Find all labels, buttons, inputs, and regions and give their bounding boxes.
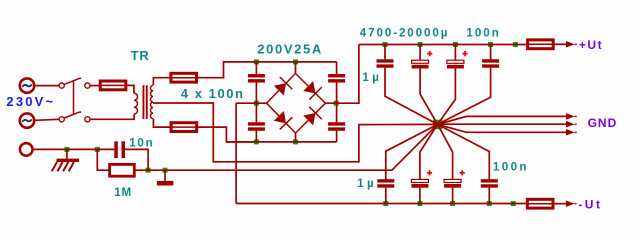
fuse F5 (-Ut)	[527, 199, 553, 208]
svg-text:1M: 1M	[114, 186, 132, 199]
wire transformer center tap to star ground	[153, 103, 438, 162]
junction bridge top rail left	[254, 59, 259, 64]
svg-text:100n: 100n	[466, 27, 500, 40]
wire bridge bottom vertex to rail	[295, 133, 297, 142]
wire 1M to junction	[134, 169, 148, 171]
earth terminal X3	[20, 143, 33, 156]
wire GND 2	[438, 123, 566, 125]
wire signal ground line to star	[165, 124, 438, 170]
capacitor C12 100n (bottom)	[438, 124, 490, 179]
capacitor C10 electrolytic (bottom)	[420, 124, 438, 179]
AC terminal X2 (230V bottom)	[20, 113, 34, 127]
capacitor C6 electrolytic 4700-20000u	[419, 45, 421, 61]
svg-text:+Ut: +Ut	[579, 38, 603, 52]
junction bottom rail C10	[417, 201, 422, 206]
junction signal ground	[163, 168, 168, 173]
resistor R1 1M	[110, 164, 135, 176]
capacitor C2 100n (bridge bottom-left)	[255, 103, 257, 122]
junction bridge right vertex	[334, 101, 339, 106]
junction bridge top rail mid	[293, 59, 298, 64]
switch gang link	[73, 81, 75, 115]
junction earth symbol	[64, 147, 69, 152]
bridge diode D2 (top-right)	[303, 81, 315, 93]
switch S1 pole B	[59, 117, 64, 122]
bottom filter rail -	[236, 203, 526, 205]
svg-text:230V~: 230V~	[6, 94, 55, 109]
fuse F1 (primary)	[100, 81, 126, 90]
wire F3 to bridge bottom rail	[198, 127, 257, 142]
junction bridge bottom rail mid	[293, 139, 298, 144]
capacitor C1 100n top-left lead	[255, 62, 257, 74]
bridge bottom rail	[226, 141, 336, 143]
switch S1 pole A	[59, 83, 64, 88]
arrow -Ut	[566, 200, 575, 207]
wire bottom switch to transformer primary	[90, 114, 134, 119]
wire secondary top to fuse F2	[153, 78, 169, 86]
wire to signal ground	[148, 169, 165, 171]
junction bridge bottom rail left	[254, 139, 259, 144]
capacitor C3 100n (bridge top-right)	[336, 62, 338, 74]
bridge diode D4 (bottom-right)	[303, 113, 315, 125]
svg-text:1µ: 1µ	[362, 71, 382, 84]
wire switch to fuse F1	[90, 85, 99, 87]
top filter rail +	[359, 44, 527, 46]
bridge top rail	[256, 61, 336, 63]
wire N-bottom terminal to switch	[36, 119, 59, 120]
bridge diode D1 (left-top)	[274, 83, 286, 95]
wire F4 to +Ut arrow	[554, 43, 566, 45]
bridge rectifier B1 diamond	[267, 73, 326, 133]
junction bottom rail C11	[450, 201, 455, 206]
wire GND 1	[438, 116, 566, 124]
junction 10n/1M split	[95, 147, 100, 152]
junction top rail C5	[383, 42, 388, 47]
junction bottom rail C12	[487, 201, 492, 206]
wire F1 to transformer primary	[127, 85, 134, 93]
AC terminal X1 (230V top)	[20, 78, 34, 92]
wire L-top terminal to switch	[36, 85, 59, 87]
svg-text:100n: 100n	[493, 160, 529, 173]
svg-text:200V25A: 200V25A	[257, 41, 323, 56]
junction 1M/10n rejoin	[146, 168, 151, 173]
wire F5 to -Ut arrow	[554, 203, 566, 205]
wire 10n to rejoin	[125, 149, 148, 170]
junction bridge left vertex	[254, 101, 259, 106]
transformer TR primary winding	[134, 93, 137, 114]
earth ground symbol	[66, 149, 68, 158]
capacitor C1 100n (bridge top-left)	[248, 74, 265, 77]
svg-text:4700-20000µ: 4700-20000µ	[360, 27, 449, 40]
wire minus drop (left vertex to bottom rail)	[235, 103, 237, 203]
wire F2 to bridge top rail	[198, 62, 257, 78]
wire bridge plus output to top filter rail	[325, 45, 359, 104]
wire secondary bottom to fuse F3	[153, 119, 170, 127]
star ground node	[433, 120, 443, 129]
svg-text:GND: GND	[588, 116, 618, 130]
svg-text:4 x 100n: 4 x 100n	[181, 86, 245, 101]
fuse F4 (+Ut)	[528, 40, 554, 49]
arrow +Ut	[566, 41, 575, 48]
wire bridge top vertex to rail	[295, 62, 297, 74]
svg-text:1µ: 1µ	[357, 177, 377, 190]
junction top rail C6	[418, 42, 423, 47]
junction top rail before fuse	[513, 42, 518, 47]
fuse F3 (secondary bottom)	[171, 123, 197, 132]
fuse F2 (secondary top)	[171, 73, 197, 82]
junction top rail C8	[488, 42, 493, 47]
wire left vertex to minus drop	[236, 102, 267, 104]
junction bottom rail C9	[383, 201, 388, 206]
capacitor C8 100n (top)	[490, 45, 492, 60]
svg-text:10n: 10n	[129, 136, 154, 149]
junction bottom rail before fuse	[511, 201, 516, 206]
signal ground symbol	[164, 170, 166, 181]
svg-text:TR: TR	[131, 48, 150, 63]
capacitor C9 1u (bottom)	[386, 124, 438, 179]
svg-text:-Ut: -Ut	[578, 198, 602, 211]
transformer TR secondary winding	[150, 85, 153, 118]
capacitor C5 1u (top)	[384, 45, 386, 60]
bridge diode D3 (left-bottom)	[274, 111, 286, 123]
wire junction down to 1M	[97, 149, 109, 170]
transformer core	[143, 85, 145, 119]
capacitor C4 100n (bridge bottom-right)	[336, 103, 338, 122]
wire earth terminal to 10n	[33, 148, 114, 150]
capacitor C7 electrolytic 4700-20000u	[454, 45, 456, 61]
junction top rail C7	[453, 42, 458, 47]
capacitor C13 10n	[114, 141, 118, 158]
wire GND 3	[438, 124, 566, 132]
capacitor C11 electrolytic (bottom)	[438, 124, 453, 179]
